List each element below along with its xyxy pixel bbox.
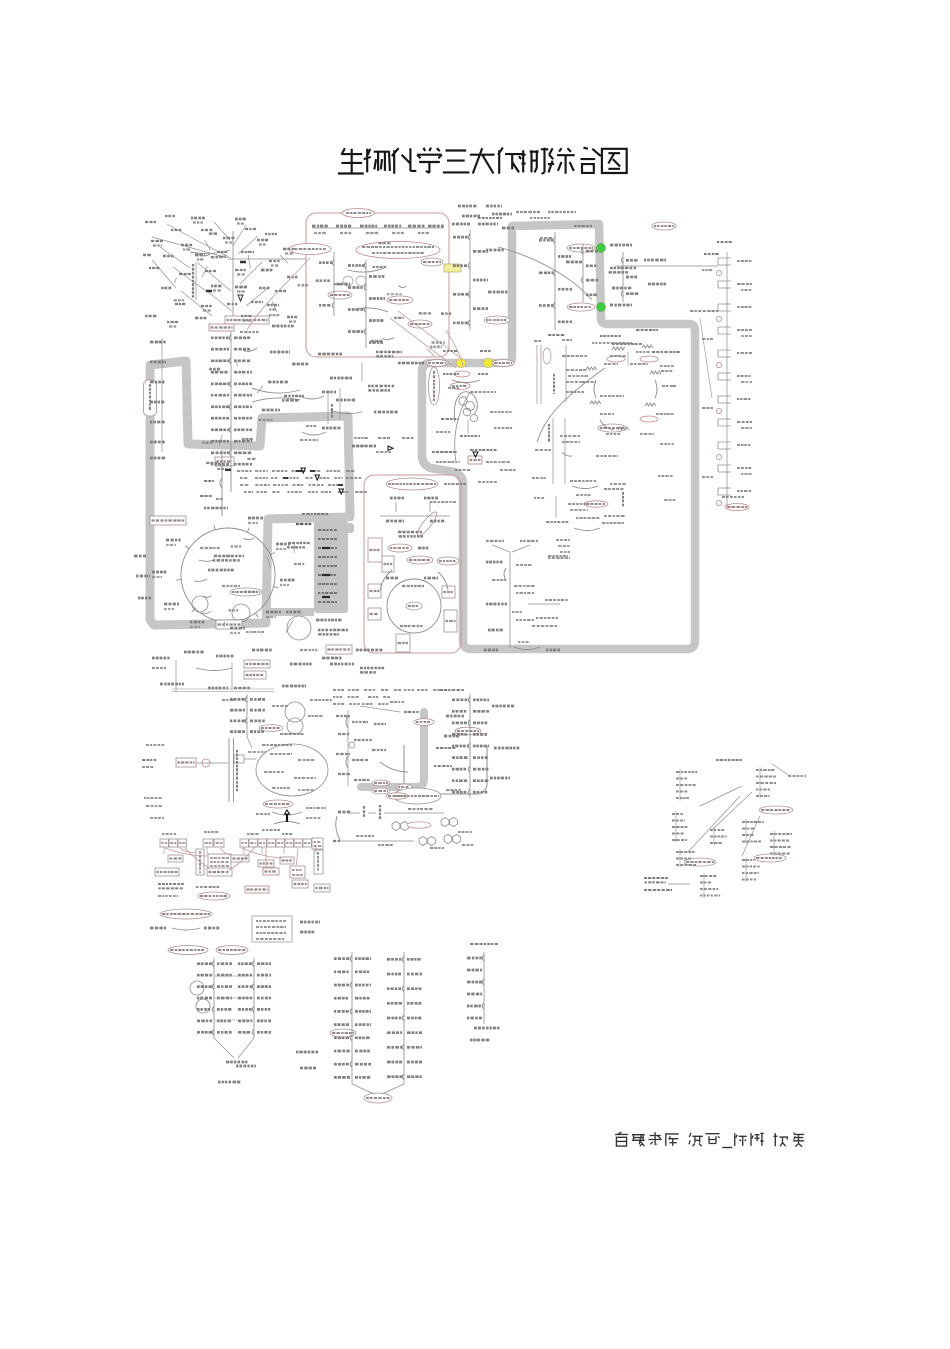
pyrimidine synthesis ladder: [455, 727, 481, 735]
beta-oxidation repeat cycle zigzags: [607, 356, 625, 362]
glycolysis/TCA gray pipe ring (left): [150, 361, 350, 625]
fine line-work and tiny-text texture layer: [294, 213, 605, 504]
cholesterol synthesis chain: [716, 270, 721, 275]
yellow marker dots on pipe: [456, 358, 466, 367]
ketone body cluster: [450, 383, 470, 390]
respiratory chain gray box: [314, 521, 348, 613]
footer: 百度书库 游医_江湖 收集 (drawn as vector strokes): [615, 1132, 628, 1146]
beta-oxidation spiral and fatty acid synthesis columns: [459, 397, 467, 405]
phenylalanine/tyrosine pathway row: [386, 793, 408, 799]
page title: 生物化学三大代谢综合图 (drawn as vector strokes): [338, 148, 364, 173]
branch pipe into respiratory chain box: [266, 608, 314, 616]
urea pipe labels: [372, 780, 390, 786]
green marker dots on right pipe: [596, 243, 605, 252]
phospholipid synthesis cluster: [759, 806, 793, 814]
glycogen synthesis/breakdown web (top-left): [225, 316, 269, 324]
amino acid metabolism frame contents: [386, 478, 438, 490]
glucuronate/mannose labels near top pipe: [567, 244, 595, 252]
amino acid degradation product boxes: [160, 839, 169, 847]
vitamin C synthesis chain: [484, 316, 510, 324]
deamination chain and glutaminase circles: [285, 702, 305, 722]
pentose phosphate pathway red frame: [306, 213, 449, 357]
glutamine membrane lines, glutamate wheel, IMP cycle: [176, 758, 196, 767]
pyruvate dehydrogenase cofactor rows: [215, 457, 234, 466]
amino acid deamination tree: [244, 660, 270, 668]
amino acid metabolism red frame: [364, 475, 461, 653]
nucleotide metabolism section: [160, 909, 212, 919]
pentose phosphate pathway contents: [356, 242, 440, 259]
fatty acid loop right margin labels: [598, 424, 626, 432]
galactose section thin frame: [404, 745, 487, 794]
TCA cycle circle: [181, 528, 275, 622]
ornithine cycle notes: [349, 742, 355, 748]
urea cycle gray pipe: [361, 712, 424, 787]
fatty-acid/amino-acid gray pipe ring (right): [422, 224, 695, 649]
